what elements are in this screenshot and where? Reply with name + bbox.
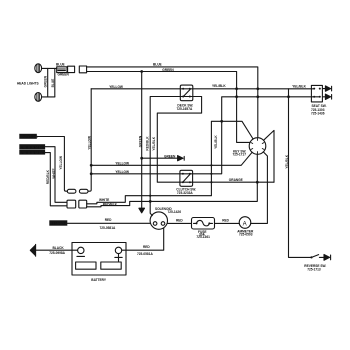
wire green top run bbox=[87, 72, 250, 143]
svg-text:725-0581A: 725-0581A bbox=[137, 252, 153, 256]
key switch circle bbox=[249, 138, 266, 155]
wire key upper-left / white run bbox=[87, 121, 253, 204]
clutch switch box bbox=[180, 170, 193, 186]
ground arrow bbox=[139, 208, 145, 213]
wire seat vertical to reverse switch bbox=[289, 89, 312, 258]
svg-text:GREEN: GREEN bbox=[164, 155, 176, 159]
svg-text:BLUE: BLUE bbox=[51, 79, 55, 88]
battery terminal plus bbox=[115, 247, 121, 253]
reverse switch blade and arrow bbox=[312, 255, 324, 258]
wire battery plus to solenoid bbox=[122, 228, 164, 250]
deck switch box bbox=[180, 85, 193, 101]
fuse element bbox=[194, 220, 213, 225]
svg-text:YELLOW: YELLOW bbox=[115, 161, 129, 165]
svg-text:725-1713: 725-1713 bbox=[307, 268, 321, 272]
solenoid circle bbox=[150, 212, 167, 229]
fuse box bbox=[192, 218, 215, 230]
svg-text:GROUND: GROUND bbox=[21, 135, 38, 139]
svg-text:RED: RED bbox=[143, 245, 150, 249]
svg-text:RED: RED bbox=[105, 218, 112, 222]
wire green branch down bbox=[141, 72, 143, 159]
connector square left bbox=[67, 200, 76, 208]
wire yel/blk seat lower + vertical + H2 bbox=[91, 97, 320, 174]
wire solenoid to fuse bbox=[168, 222, 192, 224]
svg-text:WHITE: WHITE bbox=[99, 198, 109, 202]
wire red/blk run to key bottom bbox=[87, 154, 258, 207]
svg-text:725-1657A: 725-1657A bbox=[177, 107, 193, 111]
svg-text:RED/BLK: RED/BLK bbox=[46, 169, 50, 184]
svg-text:ORANGE: ORANGE bbox=[229, 178, 243, 182]
wire green vertical headlights bbox=[47, 68, 49, 97]
svg-text:YEL/BLK: YEL/BLK bbox=[292, 84, 306, 88]
connector arrow green bbox=[178, 156, 185, 161]
seat switch arrows bbox=[322, 86, 331, 91]
seat switch pins bbox=[313, 88, 315, 90]
label ALTERNATOR black box 1 bbox=[19, 144, 45, 149]
svg-text:GREEN: GREEN bbox=[58, 73, 70, 77]
label ENGINE black box bbox=[49, 220, 67, 225]
svg-text:YEL/BLK: YEL/BLK bbox=[152, 136, 156, 150]
svg-text:BATTERY: BATTERY bbox=[91, 278, 107, 282]
svg-text:HEAD LIGHTS: HEAD LIGHTS bbox=[17, 82, 39, 86]
key switch pin ticks bbox=[251, 139, 264, 154]
svg-text:RED: RED bbox=[176, 219, 183, 223]
ground symbol battery bbox=[35, 244, 37, 256]
seat switch box bbox=[311, 85, 322, 102]
wire ground label box1 bbox=[37, 137, 68, 192]
battery cell left bbox=[76, 262, 96, 269]
wire key lower-right to ammeter bbox=[251, 152, 268, 224]
wire lower bulb bbox=[42, 96, 55, 98]
clutch switch blade bbox=[183, 174, 190, 182]
wire alternator box2 white bbox=[45, 147, 67, 203]
wire fuse to ammeter bbox=[215, 222, 240, 224]
svg-text:725-1361: 725-1361 bbox=[196, 235, 210, 239]
svg-text:YELLOW: YELLOW bbox=[59, 156, 63, 170]
deck switch pins bbox=[182, 88, 184, 90]
solenoid post left bbox=[153, 222, 157, 226]
solenoid post right bbox=[161, 222, 165, 226]
svg-text:RED: RED bbox=[222, 218, 229, 222]
connector P2 bbox=[68, 66, 75, 72]
svg-text:725-1717: 725-1717 bbox=[233, 153, 247, 157]
connector P1 headlight plug bbox=[57, 67, 67, 73]
svg-text:YEL/BLK: YEL/BLK bbox=[285, 154, 289, 168]
wire deck lower through box bbox=[180, 96, 193, 98]
connector pill right bbox=[79, 189, 88, 193]
svg-text:YEL/BLK: YEL/BLK bbox=[214, 135, 218, 149]
svg-text:725-0998A: 725-0998A bbox=[49, 251, 65, 255]
wire deck right loop to clutch and orange bbox=[157, 97, 274, 183]
svg-text:WHITE: WHITE bbox=[52, 168, 56, 178]
battery terminal minus bbox=[78, 247, 84, 253]
svg-text:BLUE: BLUE bbox=[153, 63, 162, 67]
svg-text:ALTERNATOR: ALTERNATOR bbox=[21, 145, 46, 149]
svg-text:BLACK: BLACK bbox=[53, 246, 65, 250]
svg-text:725-1426: 725-1426 bbox=[168, 210, 182, 214]
wire yellow top run bbox=[91, 88, 314, 90]
svg-text:YELLOW: YELLOW bbox=[109, 85, 123, 89]
wire blue top run bbox=[87, 67, 258, 138]
svg-text:ALTERNATOR: ALTERNATOR bbox=[21, 151, 46, 155]
label ALTERNATOR black box 2 bbox=[19, 150, 45, 155]
wire key upper-right drop bbox=[264, 130, 275, 182]
battery box bbox=[72, 243, 126, 276]
wire upper bulb to connector bbox=[42, 67, 57, 69]
battery cell right bbox=[101, 262, 121, 269]
svg-text:725-1436: 725-1436 bbox=[311, 112, 325, 116]
svg-text:BLUE: BLUE bbox=[56, 62, 65, 66]
ammeter circle bbox=[239, 217, 251, 229]
wire blue vertical headlights bbox=[54, 68, 56, 97]
svg-text:GREEN: GREEN bbox=[138, 135, 142, 147]
svg-text:YELLOW: YELLOW bbox=[115, 170, 129, 174]
svg-text:RED/BLK: RED/BLK bbox=[145, 136, 149, 151]
wire yellow left vertical bbox=[88, 89, 91, 191]
deck switch blade bbox=[183, 89, 190, 96]
svg-text:GREEN: GREEN bbox=[44, 75, 48, 87]
svg-text:725-3233A: 725-3233A bbox=[177, 191, 193, 195]
wire green ground drop bbox=[141, 158, 143, 208]
wire battery minus to ground bbox=[36, 249, 78, 251]
svg-text:GREEN: GREEN bbox=[162, 68, 174, 72]
headlight bulb LAMP1 bbox=[35, 64, 42, 73]
fuse pins bbox=[196, 222, 198, 224]
svg-text:725-0503: 725-0503 bbox=[239, 233, 253, 237]
connector square right bbox=[79, 200, 87, 208]
wire engine to solenoid bbox=[67, 222, 150, 224]
wire green stub to arrow bbox=[142, 157, 178, 159]
svg-text:RED/BLK: RED/BLK bbox=[103, 202, 118, 206]
svg-text:YELLOW: YELLOW bbox=[88, 136, 92, 150]
clutch switch pins bbox=[182, 173, 184, 175]
label GROUND black box bbox=[19, 134, 38, 139]
connector P3 harness bbox=[79, 66, 86, 73]
svg-text:725-0581A: 725-0581A bbox=[100, 226, 116, 230]
connector pill left bbox=[67, 189, 76, 193]
wire alternator box3 red/blk bbox=[45, 153, 67, 206]
svg-text:YEL/BLK: YEL/BLK bbox=[212, 84, 226, 88]
wire deck lower left + drop to solenoid bbox=[150, 97, 180, 216]
svg-text:ENGINE: ENGINE bbox=[52, 222, 67, 226]
wire H1 lights to key lower-left bbox=[91, 152, 252, 165]
headlight bulb LAMP2 bbox=[35, 93, 42, 102]
